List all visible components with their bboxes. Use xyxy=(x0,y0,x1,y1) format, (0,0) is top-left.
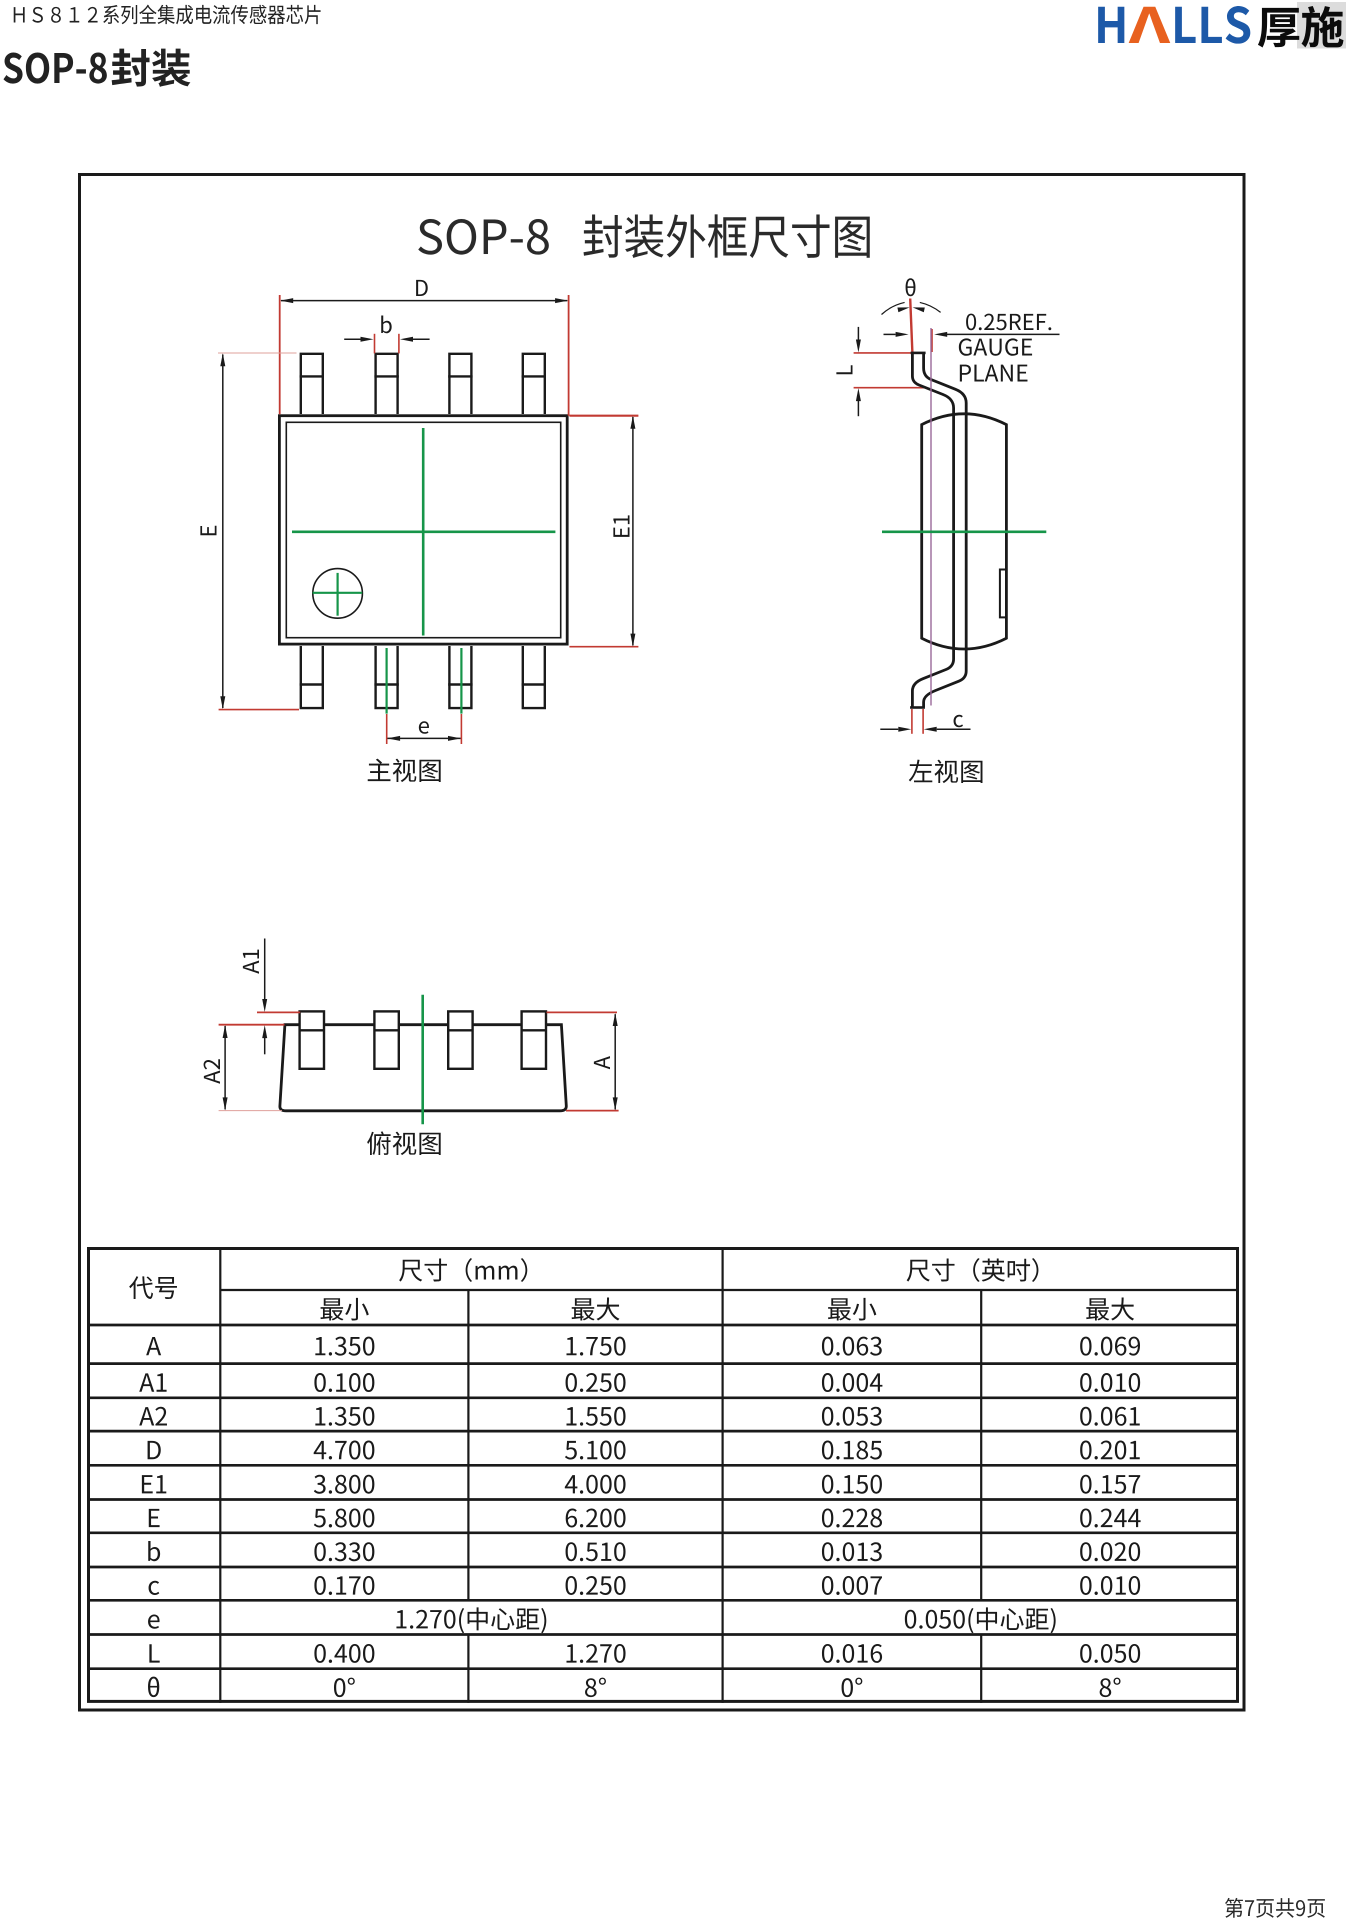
top view: pin 2 xyxy=(374,1011,398,1068)
dimension A2: label A2 (rotated) xyxy=(204,1059,220,1083)
table: outer border xyxy=(89,1249,1238,1702)
front view: green centerline bottom pin 2 xyxy=(386,648,388,714)
diagram title SOP-8 封装外框尺寸图 xyxy=(418,219,549,255)
dimension L: red extension lines xyxy=(854,352,922,354)
front view: bottom pin 3 xyxy=(449,646,471,708)
dimension D: dimension line with arrows xyxy=(281,300,567,302)
left view: lead right rail xyxy=(924,353,967,708)
left view: 0.25REF dimension line and arrows xyxy=(884,333,896,335)
left view: label theta xyxy=(906,278,916,296)
dimension E1: red extension lines xyxy=(569,415,638,417)
header: series title text xyxy=(14,5,321,25)
front view: green horizontal centerline xyxy=(292,530,555,533)
left view: lead left rail xyxy=(912,353,953,708)
dimension E1: label E1 (rotated) xyxy=(613,515,629,537)
dimension L: arrows xyxy=(857,327,859,341)
dimension A: dimension line with arrows xyxy=(614,1014,616,1109)
top view: red line A1 top (left and right segments) xyxy=(257,1011,300,1013)
dimension e: label e xyxy=(419,721,429,734)
front view: top pin 1 xyxy=(301,354,323,414)
front view: top pin 3 xyxy=(449,354,471,414)
table: header texts xyxy=(129,1276,177,1299)
left view: red lead-tip slant line for theta xyxy=(910,299,912,353)
logo HALLS (blue letters, orange lambda A) xyxy=(1098,7,1124,43)
drawing frame border xyxy=(80,175,1245,1711)
front view: green centerline bottom pin 3 xyxy=(460,648,462,714)
top view: pin 3 xyxy=(448,1011,472,1068)
dimension L: label L (rotated) xyxy=(836,365,852,374)
top view: red line bottom (left and right segments) xyxy=(219,1110,282,1112)
top view: green vertical centerline xyxy=(421,995,424,1124)
footer page number 第7页共9页 xyxy=(1225,1898,1325,1918)
front view: pin1 circle green cross xyxy=(313,592,363,594)
left view: red gauge plane extension line xyxy=(931,329,933,352)
front view: package body outer outline xyxy=(279,416,567,644)
front view: bottom pin 2 xyxy=(376,646,398,708)
top view caption 俯视图 xyxy=(367,1131,441,1155)
dimension E: pale top extension line xyxy=(218,352,297,354)
dimension A: label A (rotated) xyxy=(594,1056,610,1069)
left view caption 左视图 xyxy=(909,760,983,783)
front view caption 主视图 xyxy=(368,759,441,782)
dimension E1: dimension line with arrows xyxy=(632,417,634,645)
front view: green vertical centerline xyxy=(422,428,425,636)
dimension b: red extension lines xyxy=(374,334,376,354)
front view: bottom pin 4 xyxy=(523,646,545,708)
table: horizontal grid lines xyxy=(220,1289,1239,1291)
front view: top pin 2 xyxy=(376,354,398,414)
dimension A1: label A1 (rotated) xyxy=(243,950,259,974)
dimension D: label D xyxy=(416,280,428,296)
dimension E: red bottom extension line xyxy=(219,709,299,711)
dimension c: red extension lines xyxy=(911,709,913,734)
table: vertical grid lines xyxy=(219,1247,221,1703)
dimension e: red extension lines xyxy=(386,714,388,744)
top view: red line A1 bottom / A2 top xyxy=(219,1024,285,1026)
left view: lead tip top edge xyxy=(911,352,926,355)
dimension e: dimension line with arrows xyxy=(388,737,461,739)
left view: text GAUGE PLANE xyxy=(959,338,1032,355)
left view: body right-edge notch xyxy=(1000,570,1007,618)
dimension D: red extension lines xyxy=(279,295,281,414)
left view: package body outline xyxy=(922,414,1007,649)
top view: pin 1 xyxy=(300,1011,324,1068)
front view: pin1 index circle xyxy=(313,569,363,619)
front view: package body inner outline xyxy=(286,422,560,637)
left view: lead tip bottom edge xyxy=(910,706,925,709)
front view: top pin 4 xyxy=(523,354,545,414)
dimension A2: dimension line with arrows xyxy=(224,1026,226,1109)
dimension E: dimension line with arrows xyxy=(222,355,224,709)
dimension A1: arrows xyxy=(264,939,266,1001)
dimension c: label c xyxy=(954,715,963,728)
dimension c: arrows xyxy=(880,728,898,730)
dimension b: arrows outside xyxy=(344,338,362,340)
logo gray box behind 施 xyxy=(1297,2,1346,49)
dimension E: label E (rotated) xyxy=(200,526,216,536)
table: data rows xyxy=(146,1337,161,1355)
left view: purple gauge plane line xyxy=(930,328,932,706)
dimension b: label b xyxy=(381,315,391,333)
logo 厚施 black characters xyxy=(1258,8,1299,48)
left view: green horizontal centerline xyxy=(882,530,1046,533)
header: page subtitle SOP-8封装 xyxy=(3,52,106,83)
front view: bottom pin 1 xyxy=(301,646,323,708)
left view: theta angular arrowheads xyxy=(897,307,909,312)
left view: text 0.25REF. xyxy=(966,314,1051,331)
left view: theta angle arcs xyxy=(882,302,941,314)
top view: package body profile xyxy=(280,1025,566,1111)
top view: pin 4 xyxy=(522,1011,546,1068)
